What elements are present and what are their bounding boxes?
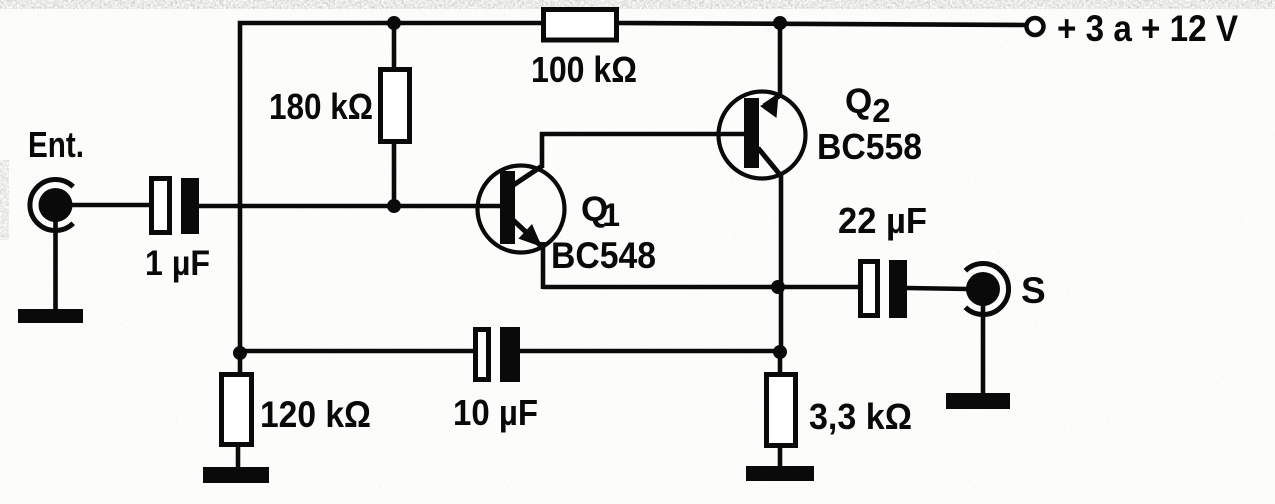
input connector Ent. center dot: [39, 188, 73, 222]
transistor Q1 emitter diagonal: [512, 219, 541, 246]
svg-text:3,3 kΩ: 3,3 kΩ: [809, 396, 912, 437]
wire: base wire from 1uF cap to Q1 base: [196, 204, 503, 209]
svg-text:100 kΩ: 100 kΩ: [531, 49, 637, 90]
transistor Q1 collector diagonal: [512, 166, 542, 186]
transistor Q1 circle: [478, 166, 565, 253]
wire: bottom feedback wire left of 10uF: [240, 349, 476, 354]
svg-text:BC558: BC558: [817, 126, 922, 167]
wire: 3.3k top stem: [778, 352, 783, 375]
wire: input connector ground stem: [53, 218, 58, 311]
transistor Q2 base bar: [744, 98, 759, 168]
junction node: output node on Q2 collector: [771, 280, 785, 294]
supply terminal circle: [1027, 18, 1044, 35]
capacitor 22uF left plate: [861, 262, 878, 316]
wire: 3.3k bottom stem: [778, 445, 783, 468]
resistor 120 kOhm body: [222, 375, 252, 445]
junction node: rail / 180k: [387, 16, 401, 30]
capacitor C1 1uF right plate (solid): [181, 178, 199, 234]
wire: 120k top stem: [238, 353, 243, 375]
output connector S shield arc (opening left): [965, 264, 1008, 315]
input connector Ent. shield arc (opening right): [30, 180, 73, 231]
capacitor C1 1uF left plate: [152, 179, 170, 233]
svg-text:120 kΩ: 120 kΩ: [260, 394, 371, 435]
wire: Q1 emitter down to output line: [541, 242, 546, 289]
output connector S center dot: [966, 272, 1000, 306]
scan smudge left edge: [0, 160, 9, 240]
svg-text:1 µF: 1 µF: [145, 244, 210, 283]
resistor 3.3 kOhm body: [767, 375, 796, 446]
wire: bottom feedback wire right of 10uF: [518, 349, 781, 354]
junction node: rail / Q2 emitter: [773, 16, 787, 30]
transistor Q2 circle: [719, 92, 806, 179]
wire: 180k top stem: [392, 23, 397, 70]
transistor Q1 base bar: [500, 171, 515, 244]
transistor Q1 emitter arrowhead: [518, 224, 542, 247]
svg-text:BC548: BC548: [551, 235, 656, 276]
ground bar under 120k: [203, 467, 269, 483]
capacitor 10uF left plate: [476, 330, 489, 380]
transistor Q2 emitter diagonal: [764, 94, 782, 106]
input ground bar: [18, 309, 83, 323]
svg-text:22 µF: 22 µF: [838, 200, 927, 241]
wire: Q2 collector down through output node to bottom node: [779, 172, 784, 353]
resistor 180 kOhm body: [381, 70, 410, 142]
wire: +V rail left segment with left vertical drop: [240, 23, 545, 353]
resistor 100 kOhm body: [544, 10, 617, 41]
capacitor 10uF right plate (solid): [500, 327, 520, 382]
svg-text:180 kΩ: 180 kΩ: [269, 86, 373, 127]
wire: 180k bottom stem to base node: [392, 140, 397, 206]
svg-text:+ 3 a + 12 V: + 3 a + 12 V: [1057, 8, 1238, 49]
junction node: Q2 collector / 3.3k / 10uF: [773, 345, 787, 359]
wire: +V rail right segment to supply terminal: [615, 23, 1025, 25]
transistor Q2 collector diagonal: [758, 148, 781, 176]
transistor Q2 emitter arrowhead (PNP, points into base): [760, 97, 778, 118]
svg-text:Q1: Q1: [581, 190, 620, 233]
wire: input connector to 1uF: [68, 203, 153, 208]
svg-text:Ent.: Ent.: [28, 124, 84, 165]
wire: 22uF to output connector: [907, 288, 968, 289]
wire: output connector ground stem: [981, 300, 986, 395]
wire: output line from Q1 emitter to 22uF: [543, 285, 862, 290]
output ground bar: [946, 393, 1010, 409]
svg-text:10 µF: 10 µF: [453, 392, 538, 433]
junction node: bias vertical / 120k / 10uF: [233, 346, 247, 360]
wire: Q1 collector up and over to Q2 base: [542, 134, 746, 168]
scan smudge top edge: [0, 0, 1275, 9]
ground bar under 3.3k: [746, 466, 814, 481]
wire: 120k bottom stem: [236, 444, 241, 469]
junction node: base node / 180k bottom: [387, 199, 401, 213]
capacitor 22uF right plate (solid): [889, 260, 907, 318]
svg-text:S: S: [1021, 270, 1046, 311]
wire: Q2 emitter up to rail: [778, 23, 783, 95]
